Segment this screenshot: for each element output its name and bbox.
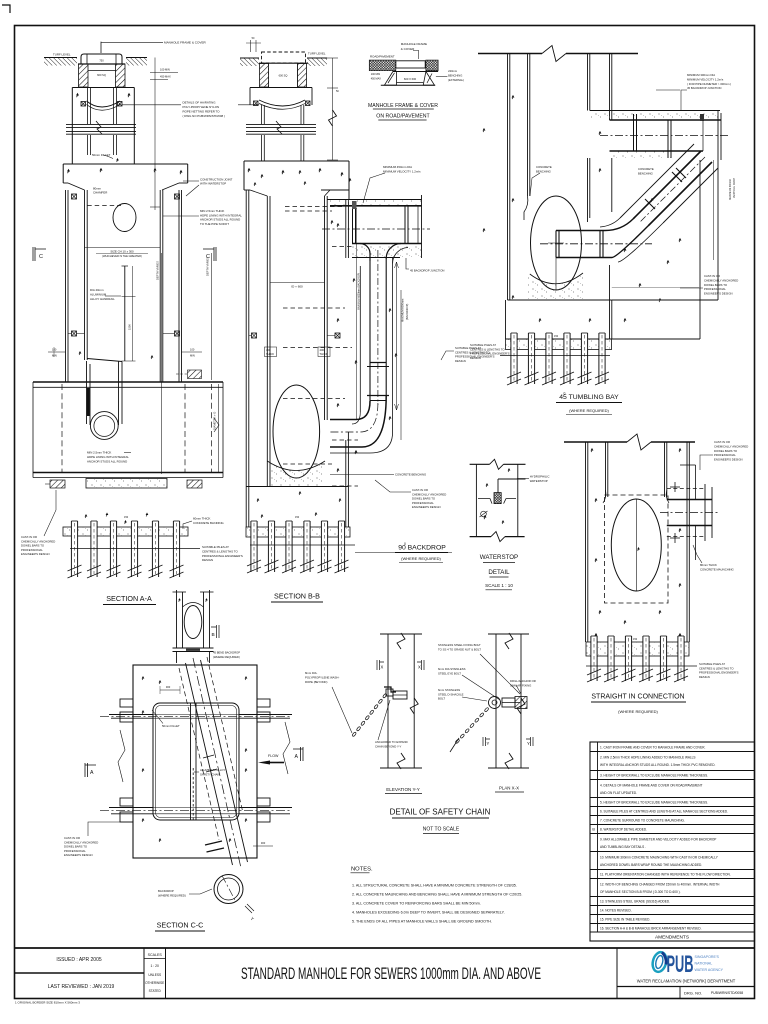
svg-text:SIZE CH 10 x 300: SIZE CH 10 x 300: [110, 250, 134, 254]
section A-A chain size dim: [85, 247, 161, 249]
section A-A dowel anchor right: [187, 480, 202, 488]
svg-text:400: 400: [320, 348, 325, 352]
svg-text:PROFESSIONAL: PROFESSIONAL: [704, 287, 726, 291]
svg-text:A: A: [295, 754, 299, 760]
svg-text:TO SS 4 TO GRADE NUT & BOLT: TO SS 4 TO GRADE NUT & BOLT: [438, 647, 481, 651]
svg-text:STANDARD MANHOLE FOR SEWERS 1: STANDARD MANHOLE FOR SEWERS 1000mm DIA. …: [241, 965, 541, 983]
section A-A arch waterstop left: [81, 102, 86, 107]
title block top line: [15, 947, 755, 949]
svg-text:50mm FILLET: 50mm FILLET: [162, 724, 180, 728]
svg-text:ID + 600: ID + 600: [291, 285, 303, 289]
section C-C safety chain vertical: [192, 768, 194, 820]
svg-text:ENGINEER'S DESIGN: ENGINEER'S DESIGN: [412, 505, 441, 509]
section B-B turf hatch left: [240, 58, 259, 66]
svg-text:WATERSTOP: WATERSTOP: [530, 479, 548, 483]
svg-text:SECTION C-C: SECTION C-C: [157, 921, 204, 930]
section A-A frame hatched jamb right: [116, 64, 126, 87]
section A-A chamber walls: [65, 190, 67, 382]
svg-text:MINIMUM 300mm DIA: MINIMUM 300mm DIA: [687, 73, 715, 77]
svg-text:& COVER: & COVER: [401, 47, 415, 51]
section A-A hidden wall dashes: [61, 384, 63, 472]
tumbling bay lower elbow: [556, 219, 633, 231]
section B-B chamber roof slab: [250, 87, 312, 89]
svg-text:TO THE PIPE SOFFIT: TO THE PIPE SOFFIT: [200, 222, 229, 226]
PUB logo swirl: [651, 951, 669, 974]
section B-B pipe opening ellipse: [273, 385, 320, 478]
svg-text:THICK: THICK: [266, 352, 274, 356]
svg-text:80mm THICK: 80mm THICK: [700, 563, 717, 567]
svg-text:(WHERE REQUIRED): (WHERE REQUIRED): [213, 655, 240, 659]
corner registration mark: [2, 5, 10, 13]
section C-C spades inside: [142, 676, 145, 680]
tumbling bay benching stipple: [528, 272, 585, 299]
title block logo cell divider: [616, 948, 618, 999]
svg-text:150: 150: [633, 638, 638, 641]
section C-C riser shaft top: [176, 590, 178, 648]
svg-text:THICK: THICK: [320, 352, 328, 356]
svg-text:DEPTH VARIES: DEPTH VARIES: [206, 257, 210, 276]
section A-A pile cut line: [70, 548, 200, 550]
tumbling bay pipe flanges: [633, 114, 635, 151]
svg-text:8. WATERSTOP DETAIL ADDED.: 8. WATERSTOP DETAIL ADDED.: [600, 828, 647, 832]
section A-A pipe opening ellipse: [113, 204, 136, 232]
tumbling bay upper pipe surround: [590, 112, 720, 120]
backdrop elbow upper: [360, 244, 370, 262]
svg-text:DETAIL: DETAIL: [488, 569, 510, 576]
svg-text:450 MAX: 450 MAX: [371, 77, 382, 80]
svg-text:CONCRETE: CONCRETE: [536, 165, 552, 169]
straight-in concrete surround lines: [695, 465, 697, 500]
safety chain elev anchor: [384, 687, 396, 692]
svg-text:CONCRETE BLINDING: CONCRETE BLINDING: [193, 521, 224, 525]
svg-text:( FOR PIPE DIAMETER > 300mm ): ( FOR PIPE DIAMETER > 300mm ): [687, 82, 731, 86]
tumbling bay chamber ellipse: [531, 196, 582, 290]
svg-text:BOLT: BOLT: [438, 697, 445, 701]
svg-text:ENGINEER'S DESIGN: ENGINEER'S DESIGN: [21, 552, 50, 556]
title block issued/reviewed box: [15, 972, 145, 974]
svg-text:ALUMINIUM: ALUMINIUM: [90, 293, 107, 297]
section C-C diagonal hatch ticks: [203, 755, 214, 758]
svg-text:ON ROAD/PAVEMENT: ON ROAD/PAVEMENT: [376, 114, 430, 120]
svg-text:DOWEL BARS TO: DOWEL BARS TO: [714, 449, 738, 453]
svg-text:Y: Y: [487, 741, 490, 746]
road frame body: [393, 71, 438, 73]
svg-text:CHAMFER: CHAMFER: [93, 191, 107, 195]
svg-text:750: 750: [99, 59, 104, 63]
svg-text:1 : 20: 1 : 20: [150, 964, 159, 968]
svg-text:HDPE LINING WITH INTEGRAL: HDPE LINING WITH INTEGRAL: [87, 455, 129, 459]
svg-text:CONCRETE BENCHING: CONCRETE BENCHING: [395, 473, 426, 477]
section B-B chamber walls: [245, 190, 247, 486]
svg-text:PROFESSIONAL ENGINEER'S: PROFESSIONAL ENGINEER'S: [202, 554, 243, 558]
section B-B depth dim: [400, 290, 402, 440]
section C-C riser ellipse: [184, 606, 202, 639]
svg-text:WATERSTOP: WATERSTOP: [480, 554, 518, 561]
svg-text:SAFETY CHAIN: SAFETY CHAIN: [200, 772, 220, 776]
svg-text:Y: Y: [527, 741, 530, 746]
section A-A benching top: [87, 359, 122, 362]
svg-text:FLOW: FLOW: [268, 754, 279, 758]
straight-in walls: [585, 442, 587, 642]
svg-text:SECTION A-A: SECTION A-A: [106, 594, 152, 603]
section A-A pipe end walls: [32, 382, 34, 478]
tumbling bay vertical dim: [713, 160, 715, 260]
tumbling bay base slab: [505, 300, 507, 339]
safety chain elev X markers: [377, 660, 384, 670]
svg-text:POLY-PROPYLENE NYLON: POLY-PROPYLENE NYLON: [183, 105, 220, 109]
section C-C diagonal backdrop pipe: [179, 657, 248, 865]
straight-in pipe cross ticks: [670, 482, 680, 543]
svg-text:HYDROPHILIC: HYDROPHILIC: [530, 475, 550, 479]
svg-text:MANHOLE FRAME & COVER: MANHOLE FRAME & COVER: [164, 41, 207, 45]
svg-text:PROFESSIONAL: PROFESSIONAL: [714, 453, 736, 457]
road hatch left: [369, 60, 396, 71]
svg-text:CAST-IN OR: CAST-IN OR: [704, 274, 720, 278]
svg-text:NATIONAL: NATIONAL: [695, 961, 713, 965]
svg-text:BENCHING: BENCHING: [536, 169, 551, 173]
svg-text:ENGINEER'S DESIGN: ENGINEER'S DESIGN: [64, 853, 93, 857]
svg-text:DESIGN: DESIGN: [470, 356, 481, 360]
svg-text:100 MIN: 100 MIN: [160, 68, 170, 72]
section B-B chamber floor: [246, 486, 348, 488]
svg-text:150: 150: [295, 516, 300, 519]
svg-text:BENCHING: BENCHING: [448, 74, 462, 78]
svg-text:DOWEL BARS TO: DOWEL BARS TO: [704, 283, 728, 287]
safety chain elev wall: [387, 634, 389, 768]
backdrop pipe end cap: [421, 195, 423, 258]
svg-text:BACKDROP: BACKDROP: [158, 889, 174, 893]
section B-B buried cover dashed: [262, 52, 306, 63]
tumbling bay inlet flanges: [555, 231, 557, 258]
svg-text:UNLESS: UNLESS: [148, 973, 161, 977]
svg-text:DESIGN: DESIGN: [202, 558, 213, 562]
section C-C riser flange: [173, 647, 214, 649]
svg-text:WATER RECLAMATION (NETWORK): WATER RECLAMATION (NETWORK) DEPARTMENT: [637, 979, 736, 984]
section A-A turf hatch left: [44, 58, 77, 66]
svg-text:45 BEND BACKDROP: 45 BEND BACKDROP: [213, 651, 240, 655]
svg-text:16. SECTION A-A & B-B MANHOLE: 16. SECTION A-A & B-B MANHOLE BRICK ARRA…: [600, 926, 702, 930]
svg-text:AMENDMENTS: AMENDMENTS: [655, 935, 689, 941]
section B-B piles: [246, 527, 350, 537]
svg-text:1. ALL STRUCTURAL CONCRETE SH: 1. ALL STRUCTURAL CONCRETE SHALL HAVE A …: [352, 884, 517, 888]
section A-A drop invert circle: [90, 412, 118, 440]
svg-text:MANHOLE FRAME & COVER: MANHOLE FRAME & COVER: [368, 103, 438, 109]
svg-text:(WHERE REQUIRED): (WHERE REQUIRED): [158, 893, 186, 897]
section A-A pipe crown: [33, 381, 223, 383]
svg-text:100 MIN: 100 MIN: [371, 73, 381, 76]
section C-C pipe left lower: [109, 807, 153, 809]
section A-A 100min dim left: [48, 351, 66, 353]
safety chain plan wall: [495, 634, 497, 768]
tumbling bay pipe end: [720, 113, 722, 160]
section C-C backdrop end circle: [214, 875, 243, 904]
section B-B wall break lines: [246, 124, 316, 126]
svg-text:600 X 600: 600 X 600: [404, 77, 417, 81]
safety chain plan chain: [455, 739, 460, 744]
svg-text:(WHERE REQUIRED): (WHERE REQUIRED): [401, 556, 441, 561]
svg-text:MINIMUM VELOCITY 1.2m/s: MINIMUM VELOCITY 1.2m/s: [383, 170, 421, 174]
svg-text:SECTION B-B: SECTION B-B: [274, 592, 320, 601]
svg-text:1500: 1500: [128, 324, 132, 330]
svg-text:600 SQ: 600 SQ: [97, 73, 106, 77]
section C-C pipe right flanges: [257, 699, 270, 707]
svg-text:A: A: [90, 770, 94, 776]
svg-text:STATED: STATED: [149, 989, 162, 993]
section C-C dim 300 top left: [160, 689, 180, 691]
svg-text:CHAIN BEYOND Y-Y: CHAIN BEYOND Y-Y: [375, 744, 402, 748]
svg-text:CONCRETE: CONCRETE: [638, 167, 654, 171]
svg-text:150: 150: [124, 516, 129, 519]
svg-text:1 ORIGINAL BORDER SIZE 810mm X: 1 ORIGINAL BORDER SIZE 810mm X 560mm 3: [15, 1001, 80, 1005]
backdrop drop pipe: [369, 261, 371, 401]
backdrop shaft spades: [337, 223, 340, 227]
section A-A dowel anchor left: [50, 480, 65, 488]
svg-text:DESIGN: DESIGN: [699, 675, 710, 679]
svg-text:4. MANHOLES EXCEEDING 6.0m DE: 4. MANHOLES EXCEEDING 6.0m DEEP TO INVER…: [352, 911, 505, 915]
tumbling bay right concrete mass: [699, 160, 701, 339]
svg-text:14. NOTES REVISED.: 14. NOTES REVISED.: [600, 909, 632, 913]
svg-text:2. MIN 2.5mm THICK HDPE LININ: 2. MIN 2.5mm THICK HDPE LINING ADDED TO …: [600, 755, 696, 759]
svg-text:DRG. NO.: DRG. NO.: [684, 991, 702, 996]
svg-text:45 BACKDROP JUNCTION: 45 BACKDROP JUNCTION: [687, 86, 721, 90]
section A-A pipe invert: [33, 472, 223, 474]
svg-text:C: C: [39, 254, 43, 260]
svg-text:PUB: PUB: [667, 951, 694, 978]
svg-text:SUITABLE PILES AT: SUITABLE PILES AT: [202, 545, 229, 549]
svg-text:ISSUED : APR 2005: ISSUED : APR 2005: [56, 957, 102, 963]
backdrop horizontal pipe: [330, 205, 422, 207]
svg-text:SCALES: SCALES: [148, 953, 163, 957]
section C-C chamber outer square: [133, 665, 257, 858]
waterstop detail top wall line: [470, 463, 490, 465]
svg-text:15. PIPE SIZE IN TABLE REVISED: 15. PIPE SIZE IN TABLE REVISED.: [600, 918, 650, 922]
straight-in hidden brick outline dashed: [605, 495, 669, 603]
svg-text:10. MINIMUM 300mm CONCRETE MAU: 10. MINIMUM 300mm CONCRETE MAUNCHING WIT…: [600, 855, 719, 859]
road hatch right: [426, 60, 438, 71]
svg-text:PUB/WRN/STD/0058: PUB/WRN/STD/0058: [711, 991, 743, 995]
safety chain elev chain: [352, 732, 357, 737]
svg-text:5. HEIGHT OF BRICKWALL TO EXCL: 5. HEIGHT OF BRICKWALL TO EXCLUDE MANHOL…: [600, 801, 708, 805]
svg-text:WITH INTEGRAL ANCHOR STUDS ALL: WITH INTEGRAL ANCHOR STUDS ALL ROUND. 1.…: [600, 763, 716, 767]
svg-text:7. CONCRETE SURROUND TO CONCRE: 7. CONCRETE SURROUND TO CONCRETE MAUNCHI…: [600, 819, 685, 823]
svg-text:(EXTERNAL): (EXTERNAL): [448, 78, 464, 82]
section B-B turf hatch right: [307, 58, 327, 66]
svg-text:PLAN X-X: PLAN X-X: [499, 786, 519, 791]
straight-in pipe circle: [611, 499, 661, 591]
svg-text:WITH WATERSTOP: WITH WATERSTOP: [200, 182, 226, 186]
section A-A turf hatch right: [126, 58, 147, 66]
svg-text:TURF LEVEL: TURF LEVEL: [53, 53, 71, 57]
svg-text:NOTES.: NOTES.: [351, 867, 373, 873]
svg-text:100: 100: [190, 348, 195, 352]
section A-A chamber roof slab wide: [63, 163, 188, 165]
svg-text:0: 0: [404, 542, 406, 546]
amendments table: [590, 742, 755, 941]
svg-text:300: 300: [261, 841, 266, 845]
section A-A concrete surround below pipe: [86, 479, 167, 489]
drg no row: [617, 986, 755, 988]
svg-text:AND TUMBLING BAY DETAILS .: AND TUMBLING BAY DETAILS .: [600, 845, 646, 849]
svg-text:12. WIDTH OF BENCHING CHANGED: 12. WIDTH OF BENCHING CHANGED FROM 150mm…: [600, 882, 720, 886]
svg-text:MANHOLE FRAME: MANHOLE FRAME: [401, 42, 427, 46]
svg-text:600 SQ: 600 SQ: [279, 74, 288, 78]
backdrop drop flanges: [370, 362, 386, 364]
section A-A frame hatched jamb left: [79, 64, 89, 87]
section A-A chamber top slab: [72, 87, 134, 89]
tumbling bay piles: [506, 339, 612, 350]
svg-text:ANCHORED DOWEL BARS WRAP ROUND: ANCHORED DOWEL BARS WRAP ROUND THE MAUNC…: [600, 863, 702, 867]
svg-text:3. ALL CONCRETE COVER TO REIN: 3. ALL CONCRETE COVER TO REINFORCING BAR…: [352, 902, 481, 906]
svg-text:ENGINEER'S DESIGN: ENGINEER'S DESIGN: [704, 292, 733, 296]
section B-B waterstops: [252, 333, 257, 338]
waterstop detail joint lines: [478, 499, 492, 504]
section B-B base slab: [245, 486, 247, 527]
svg-text:SIMILAR FIXING: SIMILAR FIXING: [510, 683, 531, 687]
svg-text:STRAIGHT IN CONNECTION: STRAIGHT IN CONNECTION: [591, 694, 684, 701]
svg-text:MINIMUM VELOCITY 1.2m/s: MINIMUM VELOCITY 1.2m/s: [687, 77, 724, 81]
waterstop detail walls: [475, 464, 477, 536]
section B-B liner arch: [259, 100, 305, 106]
svg-text:DESIGN: DESIGN: [455, 359, 466, 363]
section B-B shaft walls lower: [261, 135, 263, 161]
section A-A frame depth dim: [154, 58, 156, 211]
svg-text:X: X: [381, 665, 384, 670]
backdrop pipe flanges: [352, 206, 354, 244]
section C-C channel verticals: [190, 703, 192, 820]
svg-text:AND ON FLAT UPDATED.: AND ON FLAT UPDATED.: [600, 791, 637, 795]
section A-A small hatch block right: [188, 370, 202, 379]
svg-text:1. CAST IRON FRAME AND COVER T: 1. CAST IRON FRAME AND COVER TO MANHOLE …: [600, 745, 706, 749]
svg-text:6. SUITABLE PILES AT CENTRES A: 6. SUITABLE PILES AT CENTRES AND LENGTHS…: [600, 810, 728, 814]
svg-text:300: 300: [166, 685, 171, 689]
svg-text:(WHERE REQUIRED): (WHERE REQUIRED): [569, 408, 609, 413]
straight-in ground line: [564, 441, 627, 443]
svg-text:OF MANHOLE SECTION B-B FROM (: OF MANHOLE SECTION B-B FROM ( D-300 TO D…: [600, 890, 681, 894]
svg-text:13. STAINLESS STEEL GRADE (SS3: 13. STAINLESS STEEL GRADE (SS316) ADDED.: [600, 900, 670, 904]
svg-text:2. ALL CONCRETE MAUNCHING AND: 2. ALL CONCRETE MAUNCHING AND BENCHING S…: [352, 893, 522, 897]
svg-text:( DWG NO PUB/WRN/STD/008 ): ( DWG NO PUB/WRN/STD/008 ): [183, 114, 225, 118]
waterstop detail inner corner line: [498, 478, 526, 480]
svg-text:OTHERWISE: OTHERWISE: [145, 981, 164, 985]
svg-text:B: B: [592, 828, 595, 832]
svg-text:WATER AGENCY: WATER AGENCY: [695, 968, 724, 972]
svg-text:CONCRETE MAUNCHING: CONCRETE MAUNCHING: [700, 567, 734, 571]
svg-text:5. THE ENDS OF ALL PIPES AT M: 5. THE ENDS OF ALL PIPES AT MANHOLE WALL…: [352, 920, 492, 924]
section A-A joint waterstop left: [72, 194, 77, 199]
svg-text:220mm: 220mm: [448, 69, 458, 73]
section C-C A marker right: [293, 747, 303, 761]
straight-in base and piles: [586, 642, 689, 656]
backdrop shaft hidden dashes: [285, 206, 345, 208]
svg-text:45 BACKDROP JUNCTION: 45 BACKDROP JUNCTION: [410, 269, 444, 273]
section A-A wall break lines: [66, 124, 136, 126]
section A-A piles: [71, 521, 77, 577]
title block scales box: [143, 948, 145, 999]
section A-A handrail: [124, 266, 126, 361]
svg-text:ANCHOR STUDS ALL ROUND: ANCHOR STUDS ALL ROUND: [87, 460, 127, 464]
svg-text:3. HEIGHT OF BRICKWALL TO EXC: 3. HEIGHT OF BRICKWALL TO EXCLUDE MANHOL…: [600, 774, 708, 778]
svg-text:60mm THICK: 60mm THICK: [193, 517, 211, 521]
svg-text:MIN 2.5mm THICK: MIN 2.5mm THICK: [87, 451, 111, 455]
tumbling bay chamber floor: [508, 299, 612, 301]
section B-B wide roof slab: [244, 160, 349, 162]
svg-text:DETAILS OF HA/RATING: DETAILS OF HA/RATING: [183, 101, 217, 105]
section C-C backdrop flange tick: [205, 841, 222, 845]
section A-A blinding band: [63, 527, 188, 536]
section A-A arch waterstop right: [118, 102, 123, 107]
svg-text:POLYPROPYLENE WASH-: POLYPROPYLENE WASH-: [305, 675, 339, 679]
backdrop lower elbow: [330, 401, 370, 420]
tumbling bay upper pipe: [610, 119, 722, 121]
svg-text:450 MAX: 450 MAX: [160, 75, 171, 79]
svg-text:150: 150: [554, 335, 559, 338]
tumbling bay spades left wall: [512, 95, 515, 99]
straight-in spades: [591, 448, 594, 452]
mid dim line between sections: [332, 58, 334, 160]
svg-text:100: 100: [52, 348, 57, 352]
section A-A C section marker right: [203, 247, 216, 261]
section A-A joint waterstop right: [175, 194, 180, 199]
safety chain plan hardware: [489, 697, 501, 709]
section A-A HDPE liner arch: [87, 101, 121, 107]
svg-text:8mm DIA.: 8mm DIA.: [305, 671, 318, 675]
backdrop pipe concrete surround top: [330, 200, 421, 206]
svg-text:BENCHING: BENCHING: [638, 171, 653, 175]
svg-text:X: X: [418, 665, 421, 670]
svg-text:LAST REVIEWED : JAN 2019: LAST REVIEWED : JAN 2019: [48, 984, 115, 990]
section A-A hidden dash line upper: [87, 205, 121, 207]
svg-text:SCALE 1 : 10: SCALE 1 : 10: [485, 583, 513, 588]
section B-B piles leader line: [355, 552, 452, 554]
svg-text:ELEVATION Y-Y: ELEVATION Y-Y: [386, 787, 420, 792]
section B-B cover dim: [250, 40, 252, 52]
svg-text:MAXIMUM 6000mm (BACKDROP): MAXIMUM 6000mm (BACKDROP): [358, 273, 361, 310]
section A-A mid waterstops: [72, 331, 77, 336]
section C-C inner rounded square: [153, 703, 239, 820]
svg-text:CHEMICALLY ANCHORED: CHEMICALLY ANCHORED: [714, 444, 748, 448]
svg-text:VERTICAL DROP: VERTICAL DROP: [733, 178, 736, 198]
tumbling bay walls below pipe: [587, 158, 589, 222]
svg-text:4. DETAILS OF MANHOLE FRAME AN: 4. DETAILS OF MANHOLE FRAME AND COVER ON…: [600, 783, 703, 787]
tumbling bay benching flare: [524, 196, 528, 220]
svg-text:MINIMUM 450mm DIA: MINIMUM 450mm DIA: [383, 165, 412, 169]
tumbling bay diagonal flanges: [676, 168, 686, 178]
svg-text:ALLOY HANDRAIL: ALLOY HANDRAIL: [90, 297, 115, 301]
safety chain plan Y markers: [483, 737, 490, 746]
section C-C dim 300 right: [253, 845, 273, 847]
section C-C A marker left: [85, 763, 96, 777]
svg-text:DIA 40mm: DIA 40mm: [90, 288, 104, 292]
section B-B shaft walls upper: [261, 105, 263, 124]
tumbling bay diagonal pipe: [633, 151, 701, 219]
svg-text:(WHICHEVER IS THE GREATER): (WHICHEVER IS THE GREATER): [102, 254, 142, 258]
section B-B frame hatched jambs: [260, 64, 269, 88]
svg-text:SINGAPORE'S: SINGAPORE'S: [695, 955, 720, 959]
svg-text:ROAD/PAVEMENT: ROAD/PAVEMENT: [370, 54, 395, 58]
svg-text:CHEMICALLY ANCHORED: CHEMICALLY ANCHORED: [704, 278, 738, 282]
svg-text:STEEL EYE BOLT: STEEL EYE BOLT: [438, 671, 461, 675]
waterstop detail bottom wall line: [470, 536, 491, 538]
section C-C riser dome arc: [183, 603, 204, 608]
section A-A C section marker left: [33, 247, 46, 261]
svg-text:11. PLATFORM ORIENTATION CHANG: 11. PLATFORM ORIENTATION CHANGED WITH RE…: [600, 873, 731, 877]
svg-text:TURF LEVEL: TURF LEVEL: [308, 52, 326, 56]
tumbling bay shaft walls: [507, 54, 509, 301]
svg-text:B: B: [212, 632, 215, 638]
section A-A drop lining: [86, 361, 88, 424]
svg-text:400: 400: [266, 348, 271, 352]
svg-text:(BACKDROP): (BACKDROP): [405, 304, 409, 320]
